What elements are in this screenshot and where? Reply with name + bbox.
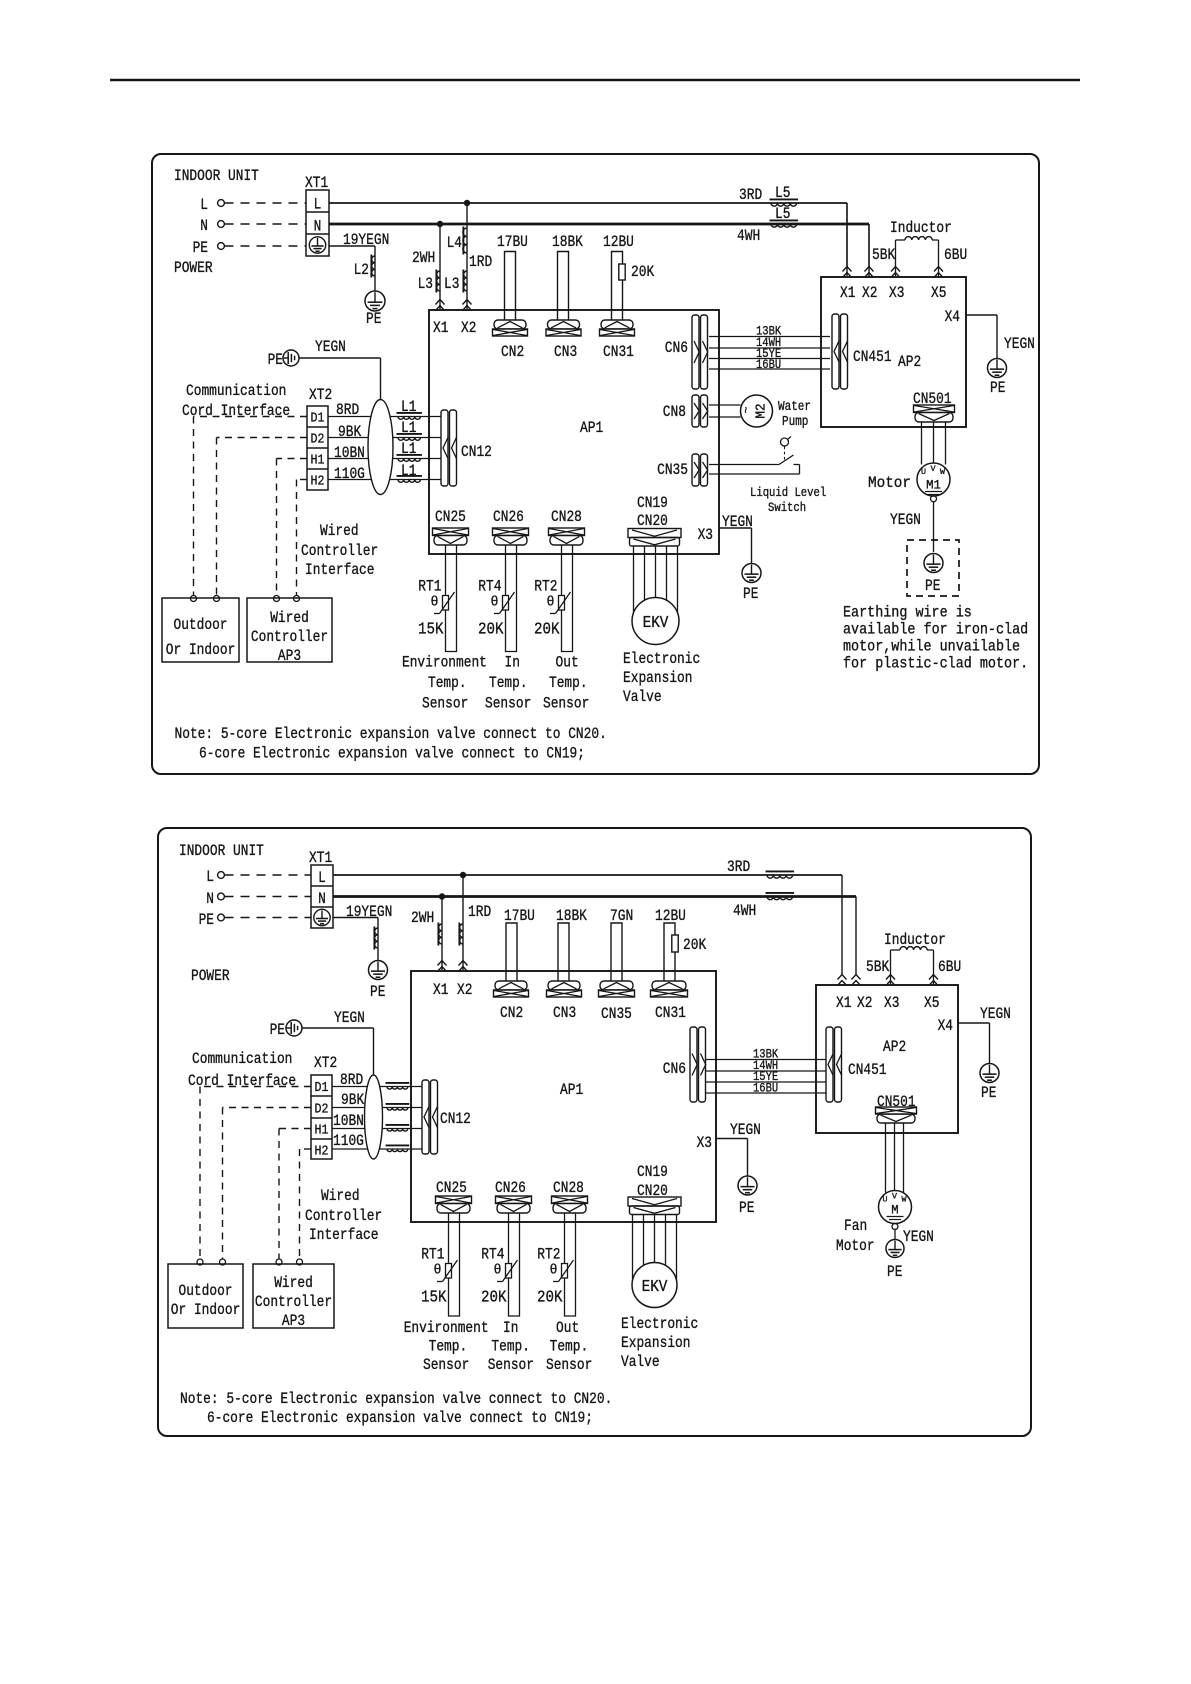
svg-text:Temp.: Temp.	[429, 1338, 468, 1356]
svg-text:PE: PE	[366, 310, 381, 328]
connector CN6 (2)	[690, 1027, 697, 1102]
svg-text:Out: Out	[556, 1319, 579, 1337]
wire L bus (1)	[329, 202, 847, 204]
svg-text:20K: 20K	[534, 620, 560, 639]
svg-text:M2: M2	[755, 403, 770, 418]
arrow X2 into AP1 (2)	[459, 961, 468, 966]
svg-text:X1: X1	[840, 284, 855, 302]
svg-text:U: U	[883, 1196, 888, 1205]
arrow X2 into AP2 (2)	[852, 975, 861, 980]
comm wire H1-10BN	[328, 458, 441, 460]
wire PE dashed lead (2)	[225, 917, 312, 919]
svg-text:6BU: 6BU	[938, 958, 961, 976]
svg-text:PE: PE	[739, 1199, 754, 1217]
svg-text:Electronic: Electronic	[623, 650, 700, 668]
svg-text:Wired: Wired	[274, 1274, 313, 1292]
svg-text:8RD: 8RD	[336, 401, 359, 419]
connector CN31 (2)	[652, 981, 686, 990]
comm wire H2-110G	[328, 479, 441, 481]
svg-text:θ: θ	[434, 1263, 442, 1279]
svg-text:Environment: Environment	[402, 654, 487, 672]
svg-text:PE: PE	[981, 1084, 996, 1102]
svg-text:9BK: 9BK	[341, 1091, 365, 1109]
wire 5BK (1)	[895, 240, 897, 276]
sensor cable RT2	[562, 545, 573, 652]
svg-text:θ: θ	[550, 1263, 558, 1279]
motor M1	[917, 463, 950, 496]
svg-text:XT2: XT2	[309, 386, 332, 404]
svg-text:In: In	[503, 1319, 518, 1337]
svg-text:Communication: Communication	[186, 382, 286, 400]
svg-text:CN20: CN20	[637, 512, 668, 530]
svg-text:M1: M1	[926, 478, 941, 493]
wire N bus (2)	[333, 895, 856, 898]
arrow X1 into AP1 (2)	[438, 961, 447, 966]
svg-text:Switch: Switch	[768, 500, 806, 515]
svg-text:L: L	[318, 869, 326, 887]
svg-text:Temp.: Temp.	[491, 1338, 530, 1356]
board AP1 (2)	[411, 971, 716, 1222]
svg-text:Cord Interface: Cord Interface	[182, 402, 290, 420]
svg-text:CN3: CN3	[553, 1004, 576, 1022]
svg-text:X5: X5	[924, 994, 939, 1012]
box Wired Controller AP3 (2)	[253, 1264, 334, 1328]
svg-text:Interface: Interface	[309, 1226, 379, 1244]
svg-text:D2: D2	[311, 432, 325, 448]
dashed box around PE (1)	[907, 540, 959, 596]
svg-text:CN19: CN19	[637, 1163, 668, 1181]
svg-text:L1: L1	[401, 440, 416, 458]
board AP1 (1)	[429, 310, 719, 554]
svg-text:RT1: RT1	[418, 578, 441, 596]
sensor cable RT4	[506, 545, 517, 652]
svg-text:X3: X3	[884, 994, 899, 1012]
svg-text:CN28: CN28	[551, 508, 582, 526]
cable bundle ellipse (2)	[365, 1075, 383, 1159]
inductor 1RD coil v (2)	[458, 923, 460, 946]
wire YEGN motor earth (2)	[894, 1230, 896, 1240]
connector CN2 (2)	[495, 981, 527, 990]
svg-text:CN31: CN31	[603, 343, 634, 361]
board AP2 (1)	[821, 277, 966, 427]
connector CN12 (2)	[422, 1080, 429, 1154]
inductor L3 left	[435, 270, 437, 293]
wire 2WH branch	[439, 224, 441, 309]
sensor cable RT1	[446, 545, 457, 652]
motor M fan	[879, 1191, 912, 1224]
svg-text:L: L	[314, 196, 322, 214]
svg-text:AP3: AP3	[278, 647, 301, 665]
svg-text:6-core Electronic expansion va: 6-core Electronic expansion valve connec…	[199, 745, 585, 763]
connector CN451 (2)	[826, 1027, 833, 1102]
svg-text:CN8: CN8	[663, 403, 686, 421]
svg-text:YEGN: YEGN	[730, 1121, 761, 1139]
svg-text:AP2: AP2	[898, 353, 921, 371]
svg-text:X1: X1	[433, 319, 448, 337]
wire 14WH (1)	[709, 347, 830, 349]
svg-text:V: V	[931, 465, 936, 474]
svg-text:20K: 20K	[481, 1288, 507, 1307]
svg-text:Liquid Level: Liquid Level	[750, 485, 826, 500]
svg-text:Out: Out	[556, 654, 579, 672]
svg-text:PE: PE	[925, 577, 940, 595]
svg-text:8RD: 8RD	[340, 1071, 363, 1089]
wires CN19/CN20 to EKV (1)	[633, 546, 635, 613]
wire 14WH (2)	[705, 1070, 826, 1072]
svg-text:AP1: AP1	[580, 419, 603, 437]
svg-text:Sensor: Sensor	[488, 1356, 534, 1374]
svg-text:PE: PE	[199, 911, 214, 929]
svg-text:YEGN: YEGN	[315, 338, 346, 356]
svg-text:X1: X1	[433, 981, 448, 999]
svg-text:INDOOR UNIT: INDOOR UNIT	[174, 167, 259, 185]
wire 5BK (2)	[890, 950, 892, 984]
wire L dashed lead	[225, 202, 307, 204]
svg-text:H1: H1	[311, 453, 325, 469]
svg-text:Wired: Wired	[321, 1187, 360, 1205]
svg-text:CN451: CN451	[853, 348, 892, 366]
svg-text:20K: 20K	[683, 936, 707, 954]
svg-text:motor,while unvailable: motor,while unvailable	[843, 638, 1020, 656]
valve EKV (1)	[632, 598, 679, 645]
svg-text:Environment: Environment	[404, 1319, 489, 1337]
svg-text:Temp.: Temp.	[550, 1338, 589, 1356]
dashed lead H1 (2)	[279, 1128, 311, 1130]
svg-text:X2: X2	[862, 284, 877, 302]
svg-text:YEGN: YEGN	[903, 1228, 934, 1246]
svg-text:RT4: RT4	[481, 1246, 504, 1264]
svg-text:Note: 5-core Electronic expans: Note: 5-core Electronic expansion valve …	[180, 1390, 612, 1408]
resistor 20K (2)	[672, 935, 678, 952]
svg-text:Sensor: Sensor	[423, 1356, 469, 1374]
svg-text:3RD: 3RD	[739, 186, 762, 204]
svg-text:AP1: AP1	[560, 1081, 583, 1099]
svg-text:L2: L2	[354, 261, 369, 279]
svg-text:CN19: CN19	[637, 494, 668, 512]
wire 16BU (2)	[705, 1092, 826, 1094]
inductor L5 upper	[770, 198, 799, 200]
dashed lead D2 (2)	[223, 1107, 312, 1109]
wire N bus (1)	[329, 223, 869, 226]
svg-text:L4: L4	[447, 234, 462, 252]
svg-text:Interface: Interface	[305, 561, 375, 579]
svg-text:D1: D1	[311, 411, 325, 427]
arrow X3 into AP2 (2)	[886, 975, 895, 980]
box Wired Controller AP3 (1)	[247, 598, 332, 662]
wires CN19/CN20 to EKV (2)	[632, 1215, 634, 1281]
svg-text:X4: X4	[945, 308, 960, 326]
arrow X2 into AP1	[463, 300, 472, 305]
svg-text:EKV: EKV	[642, 1278, 668, 1297]
svg-text:Valve: Valve	[623, 688, 662, 706]
svg-text:INDOOR UNIT: INDOOR UNIT	[179, 842, 264, 860]
svg-text:YEGN: YEGN	[334, 1009, 365, 1027]
svg-text:D1: D1	[315, 1080, 329, 1096]
dashed lead H1 (1)	[277, 458, 308, 460]
svg-text:POWER: POWER	[174, 259, 213, 277]
svg-text:CN6: CN6	[665, 339, 688, 357]
svg-text:110G: 110G	[334, 465, 365, 483]
inductor L1 c	[397, 454, 422, 456]
svg-text:Communication: Communication	[192, 1050, 292, 1068]
arrow X3 into AP2 (1)	[891, 267, 900, 272]
svg-text:X5: X5	[931, 284, 946, 302]
svg-text:X3: X3	[889, 284, 904, 302]
svg-text:19YEGN: 19YEGN	[346, 903, 392, 921]
svg-text:θ: θ	[491, 595, 499, 611]
valve EKV (2)	[632, 1263, 677, 1308]
junction N / 2WH branch (2)	[439, 893, 445, 899]
svg-text:H2: H2	[315, 1144, 329, 1160]
svg-text:20K: 20K	[537, 1288, 563, 1307]
earth PE of motor (2)	[886, 1240, 904, 1258]
svg-text:5BK: 5BK	[866, 958, 890, 976]
dashed lead H2 (2)	[300, 1148, 312, 1150]
comm wire H1-10BN (2)	[332, 1128, 422, 1130]
svg-text:Or Indoor: Or Indoor	[166, 641, 236, 659]
junction N / 2WH branch	[437, 221, 443, 227]
earth PE at X4 (1)	[988, 359, 1007, 378]
svg-text:~: ~	[740, 407, 754, 414]
svg-text:CN25: CN25	[435, 508, 466, 526]
terminal circle under motor (1)	[931, 496, 937, 502]
arrow X1 into AP1	[436, 300, 445, 305]
svg-text:RT2: RT2	[537, 1246, 560, 1264]
svg-text:X1: X1	[836, 994, 851, 1012]
arrow X5 into AP2 (1)	[934, 267, 943, 272]
svg-text:Pump: Pump	[782, 414, 808, 430]
inductor L1 a	[397, 412, 422, 414]
svg-text:X3: X3	[698, 526, 713, 544]
wires CN8 to water pump	[709, 404, 741, 406]
svg-text:L: L	[206, 868, 214, 886]
svg-text:Or Indoor: Or Indoor	[171, 1301, 241, 1319]
diagram 2 outer frame	[158, 828, 1031, 1436]
diagram 1 outer frame	[152, 154, 1039, 774]
svg-text:Expansion: Expansion	[623, 669, 693, 687]
svg-text:CN26: CN26	[495, 1179, 526, 1197]
svg-text:PE: PE	[370, 983, 385, 1001]
box Outdoor Or Indoor (1)	[162, 598, 239, 662]
svg-text:20K: 20K	[478, 620, 504, 639]
connector CN451 (1)	[832, 314, 839, 389]
wire L bus (2)	[333, 874, 842, 876]
svg-text:available for iron-clad: available for iron-clad	[843, 621, 1028, 639]
svg-text:Outdoor: Outdoor	[179, 1282, 233, 1300]
earth PE of motor (1)	[924, 554, 943, 573]
earth PE at X3 (1)	[742, 564, 761, 583]
connector CN2 (1)	[494, 320, 526, 329]
svg-text:PE: PE	[743, 585, 758, 603]
svg-text:PE: PE	[990, 379, 1005, 397]
svg-text:EKV: EKV	[643, 614, 669, 633]
wire L dashed lead (2)	[225, 874, 312, 876]
svg-text:D2: D2	[315, 1102, 329, 1118]
svg-text:4WH: 4WH	[737, 227, 760, 245]
svg-text:CN6: CN6	[663, 1060, 686, 1078]
connector CN35 (1)	[692, 454, 699, 486]
top horizontal rule	[110, 79, 1080, 82]
svg-text:Motor: Motor	[868, 474, 911, 492]
svg-text:Temp.: Temp.	[549, 674, 588, 692]
svg-text:15K: 15K	[418, 620, 444, 639]
svg-text:CN12: CN12	[461, 443, 492, 461]
earth PE below XT1 (1)	[365, 291, 385, 311]
svg-text:CN35: CN35	[601, 1005, 632, 1023]
resistor 20K (1)	[619, 264, 625, 280]
svg-text:N: N	[206, 890, 214, 908]
svg-text:RT1: RT1	[421, 1246, 444, 1264]
wires CN501 to motor (2)	[885, 1123, 887, 1193]
arrow X1 into AP2 (1)	[846, 203, 848, 276]
dashed lead D2 (1)	[217, 437, 308, 439]
wire PE to earth (1)	[329, 245, 375, 247]
wire 15YE (1)	[709, 358, 830, 360]
svg-text:CN28: CN28	[553, 1179, 584, 1197]
inductor 3RD coil (2)	[766, 870, 795, 872]
inductor L4	[462, 227, 464, 255]
earth PE at X3 (2)	[738, 1176, 757, 1195]
connector CN3 (2)	[548, 981, 580, 990]
svg-text:Motor: Motor	[836, 1237, 875, 1255]
wire PE to earth (2)	[333, 917, 378, 919]
svg-text:16BU: 16BU	[756, 357, 781, 372]
svg-text:for plastic-clad motor.: for plastic-clad motor.	[843, 655, 1028, 673]
arrow X2 into AP2 (1)	[868, 224, 870, 276]
svg-text:5BK: 5BK	[872, 246, 896, 264]
wire 16BU (1)	[709, 368, 830, 370]
dashed lead D1 (1)	[194, 416, 308, 418]
comm wire D1-8RD	[328, 416, 441, 418]
svg-text:L1: L1	[401, 398, 416, 416]
inductor L2 (2)	[373, 927, 375, 950]
connector CN6 (1)	[692, 315, 699, 389]
connector CN35 (2)	[600, 981, 633, 990]
svg-text:Controller: Controller	[301, 542, 378, 560]
wire 6BU (2)	[933, 950, 935, 984]
svg-text:L5: L5	[775, 205, 790, 223]
wire 13BK (1)	[709, 336, 830, 338]
svg-text:X2: X2	[461, 319, 476, 337]
svg-text:X3: X3	[697, 1134, 712, 1152]
svg-text:Water: Water	[778, 399, 811, 415]
svg-text:V: V	[892, 1193, 897, 1202]
svg-text:110G: 110G	[333, 1132, 364, 1150]
svg-text:YEGN: YEGN	[980, 1005, 1011, 1023]
svg-text:Sensor: Sensor	[422, 695, 468, 713]
wire 1RD branch	[466, 203, 468, 309]
svg-text:YEGN: YEGN	[1004, 335, 1035, 353]
comm wire D1-8RD (2)	[332, 1086, 422, 1088]
svg-text:2WH: 2WH	[412, 249, 435, 267]
svg-text:Wired: Wired	[270, 609, 309, 627]
motor M2 water pump	[741, 395, 773, 427]
svg-text:PE: PE	[193, 239, 208, 257]
svg-text:CN26: CN26	[493, 508, 524, 526]
svg-text:U: U	[921, 468, 926, 477]
svg-text:In: In	[505, 654, 520, 672]
svg-text:17BU: 17BU	[497, 233, 528, 251]
inductor L3 right	[462, 270, 464, 293]
svg-text:3RD: 3RD	[727, 858, 750, 876]
wire 6BU (1)	[938, 240, 940, 276]
svg-text:CN2: CN2	[501, 343, 524, 361]
svg-text:RT4: RT4	[478, 578, 501, 596]
svg-text:X2: X2	[857, 994, 872, 1012]
svg-text:YEGN: YEGN	[890, 511, 921, 529]
wire 15YE (2)	[705, 1081, 826, 1083]
svg-text:Outdoor: Outdoor	[174, 616, 228, 634]
svg-text:θ: θ	[547, 595, 555, 611]
svg-text:CN12: CN12	[440, 1110, 471, 1128]
earth PE at X4 (2)	[980, 1064, 999, 1083]
svg-text:X4: X4	[938, 1017, 953, 1035]
svg-text:CN25: CN25	[436, 1179, 467, 1197]
svg-text:XT2: XT2	[314, 1054, 337, 1072]
svg-text:W: W	[940, 468, 945, 477]
svg-text:10BN: 10BN	[333, 1112, 364, 1130]
wire YEGN motor earth (1)	[933, 502, 935, 552]
svg-text:Controller: Controller	[251, 628, 328, 646]
svg-text:Sensor: Sensor	[485, 695, 531, 713]
svg-text:6-core Electronic expansion va: 6-core Electronic expansion valve connec…	[207, 1409, 593, 1427]
svg-text:L3: L3	[444, 275, 459, 293]
svg-text:L5: L5	[775, 184, 790, 202]
wire N dashed lead	[225, 223, 307, 225]
inductor 2WH coil v (2)	[437, 923, 439, 946]
svg-text:X2: X2	[457, 981, 472, 999]
svg-text:CN3: CN3	[554, 343, 577, 361]
svg-text:1RD: 1RD	[468, 903, 491, 921]
svg-text:Temp.: Temp.	[489, 674, 528, 692]
svg-text:Electronic: Electronic	[621, 1315, 698, 1333]
wires CN501 to motor (1)	[921, 422, 923, 465]
svg-text:POWER: POWER	[191, 967, 230, 985]
svg-text:Expansion: Expansion	[621, 1334, 691, 1352]
earth PE below XT1 (2)	[369, 961, 388, 980]
svg-text:CN35: CN35	[657, 461, 688, 479]
svg-text:H2: H2	[311, 474, 325, 490]
junction L / 1RD branch	[464, 200, 470, 206]
svg-text:Inductor: Inductor	[890, 219, 952, 237]
svg-text:AP3: AP3	[282, 1312, 305, 1330]
svg-text:20K: 20K	[631, 263, 655, 281]
svg-text:RT2: RT2	[534, 578, 557, 596]
svg-text:Earthing wire is: Earthing wire is	[843, 604, 972, 622]
inductor L5 lower	[770, 219, 799, 221]
svg-text:M: M	[891, 1203, 898, 1218]
svg-text:6BU: 6BU	[944, 246, 967, 264]
junction L / 1RD branch (2)	[460, 872, 466, 878]
sensor cable RT1	[449, 1213, 460, 1316]
inductor L2	[370, 255, 372, 278]
arrow X1 into AP2 (2)	[838, 975, 847, 980]
wire 1RD branch (2)	[462, 875, 464, 970]
svg-text:PE: PE	[270, 1021, 285, 1039]
terminal circle under motor (2)	[892, 1224, 898, 1230]
liquid level switch	[709, 464, 779, 466]
wire 13BK (2)	[705, 1059, 826, 1061]
svg-text:L1: L1	[401, 462, 416, 480]
svg-text:N: N	[318, 890, 326, 908]
svg-text:L1: L1	[401, 419, 416, 437]
connector CN3 (1)	[548, 320, 580, 329]
svg-text:L3: L3	[418, 275, 433, 293]
sensor cable RT2	[565, 1213, 576, 1316]
inductor L1 d	[397, 475, 422, 477]
inductor L1 b	[397, 433, 422, 435]
dashed lead D1 (2)	[200, 1086, 311, 1088]
